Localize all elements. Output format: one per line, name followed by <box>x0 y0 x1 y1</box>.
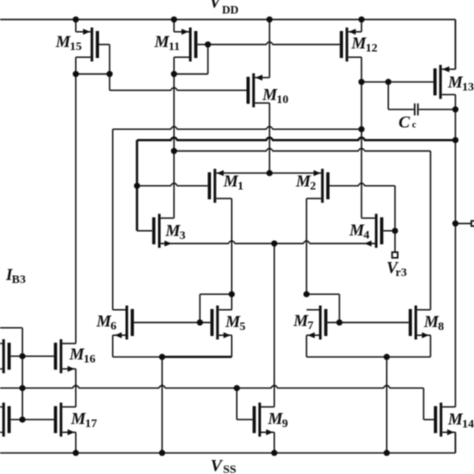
VDD rail <box>0 20 455 70</box>
svg-text:V: V <box>211 456 224 474</box>
M11 drain wire <box>174 57 189 74</box>
svg-text:17: 17 <box>85 416 97 430</box>
svg-text:4: 4 <box>364 228 370 242</box>
M1 gate wire <box>134 183 208 189</box>
M16 source wire <box>62 366 76 407</box>
M6 gate rail <box>134 322 211 324</box>
svg-text:16: 16 <box>84 352 96 366</box>
junction line3-M11drain <box>171 148 177 154</box>
M3 gate wire <box>137 230 152 232</box>
M2 label <box>295 172 316 193</box>
wire tail rail <box>161 241 375 244</box>
transistor M14 <box>436 403 442 437</box>
M9 label <box>267 409 288 430</box>
M10 gate rail <box>110 74 247 90</box>
M2 drain wire <box>307 199 322 295</box>
wire line2 thick <box>137 138 455 231</box>
wire IB3 <box>0 328 22 356</box>
transistor M9 <box>254 403 260 437</box>
junction Cc-output <box>452 106 458 112</box>
transistor M15 <box>92 28 98 62</box>
M2 source wire <box>270 170 322 176</box>
junction VSS-mirror-right <box>384 450 390 456</box>
M3 label <box>165 221 186 242</box>
M5 label <box>225 312 246 333</box>
junction M7-M8 gate <box>336 319 342 325</box>
Cc label <box>399 113 417 132</box>
M14 drain wire <box>442 406 455 408</box>
svg-text:SS: SS <box>223 462 237 474</box>
Vr3 label <box>387 258 407 279</box>
M12 source wire <box>348 20 361 35</box>
junction source rail right <box>384 354 390 453</box>
transistor M5 <box>212 306 218 340</box>
svg-text:2: 2 <box>310 179 316 193</box>
junction R2-left <box>19 385 25 391</box>
junction VSS-M9 <box>271 450 277 456</box>
svg-text:6: 6 <box>111 319 117 333</box>
M10 source wire <box>255 20 270 81</box>
svg-text:3: 3 <box>180 228 186 242</box>
svg-text:7: 7 <box>308 318 314 332</box>
M16 drain wire <box>62 74 76 344</box>
M9 drain wire <box>261 406 274 408</box>
M4 label <box>349 221 370 242</box>
M8 drain wire <box>417 309 430 311</box>
junction line2-M13drain <box>452 137 458 143</box>
IB3 label <box>5 265 26 286</box>
M17 source wire <box>62 429 76 453</box>
M4 source arrow <box>365 241 372 247</box>
junction VDD-M10 <box>266 16 272 22</box>
wire line3 <box>174 148 431 309</box>
M1 label <box>223 172 244 193</box>
junction M4 gate <box>392 228 398 234</box>
M11 gate wire <box>174 45 208 75</box>
transistor M7 <box>320 306 326 340</box>
node M15 drain-gate tie <box>73 71 113 77</box>
M5 drain wire <box>219 294 232 310</box>
M14 gate wire <box>424 419 434 421</box>
svg-text:c: c <box>412 121 416 131</box>
VSS rail <box>0 432 455 453</box>
M9 gate wire <box>237 388 253 420</box>
M13 source wire <box>442 20 456 73</box>
transistor M17 <box>56 403 62 437</box>
svg-text:r3: r3 <box>396 265 407 279</box>
svg-text:8: 8 <box>438 319 444 333</box>
transistor M1 <box>209 169 215 203</box>
transistor M8 <box>410 306 416 340</box>
M3 drain wire <box>161 217 174 219</box>
wire bias rail <box>0 386 424 420</box>
junction R2-M9gate <box>234 385 240 391</box>
transistor QB partial <box>4 403 10 437</box>
QA gate wire <box>11 355 54 357</box>
junction VSS-M17 <box>73 450 79 456</box>
svg-text:B3: B3 <box>12 272 26 286</box>
M5 source wire <box>219 332 232 357</box>
M15 label <box>55 32 82 53</box>
M2 gate wire <box>330 183 396 252</box>
terminal output <box>455 221 474 226</box>
M6 source wire <box>113 332 126 357</box>
M17 label <box>70 409 97 430</box>
svg-text:12: 12 <box>366 41 378 55</box>
M7 tie wire <box>307 294 340 322</box>
M11 source wire <box>174 20 189 35</box>
M14 label <box>447 410 474 431</box>
M10 drain wire <box>255 103 270 173</box>
svg-text:5: 5 <box>240 319 246 333</box>
QA leads <box>0 344 2 369</box>
transistor M11 <box>190 28 196 62</box>
VDD label <box>210 0 239 17</box>
svg-text:V: V <box>210 0 223 12</box>
M4 gate wire <box>383 230 395 232</box>
junction M11 drain <box>171 71 177 77</box>
M14 source wire <box>442 429 455 453</box>
transistor M2 <box>322 169 328 203</box>
transistor M12 <box>341 28 347 62</box>
svg-text:C: C <box>399 113 411 132</box>
M17 drain wire <box>62 406 76 408</box>
M15 drain wire <box>76 57 91 74</box>
junction VSS-mirror-left <box>159 450 165 456</box>
M15 source wire <box>76 20 91 35</box>
svg-text:13: 13 <box>462 80 474 94</box>
wire M5-M6 source rail <box>113 356 232 358</box>
junction tail <box>271 240 277 246</box>
junction VDD-M15 <box>73 16 79 22</box>
M7 label <box>293 311 314 332</box>
transistor M4 <box>376 214 382 248</box>
M13 label <box>447 73 474 94</box>
wire M7-M8 source rail <box>307 356 431 358</box>
M7 gate rail <box>327 322 408 324</box>
M12 label <box>351 34 378 55</box>
wire M11 gate to M12 gate <box>208 42 340 45</box>
M16 label <box>69 345 96 366</box>
junction output <box>452 220 458 226</box>
wire line1 <box>113 127 362 310</box>
M15 gate wire <box>99 45 110 75</box>
M6 label <box>96 312 117 333</box>
VSS label <box>211 456 237 474</box>
M8 label <box>423 312 444 333</box>
M8 source wire <box>417 332 430 357</box>
transistor M16 <box>56 339 62 373</box>
wire bias chain left <box>21 356 23 419</box>
wire tail down <box>273 244 275 407</box>
wire M11 drain down <box>173 74 175 218</box>
svg-text:9: 9 <box>282 416 288 430</box>
terminal Vr3 <box>392 252 398 258</box>
transistor M6 <box>127 306 133 340</box>
M5 tie wire <box>200 294 232 322</box>
svg-text:1: 1 <box>238 179 244 193</box>
capacitor Cc <box>388 82 455 116</box>
M4 drain wire <box>362 82 375 218</box>
M12 drain wire <box>348 57 361 82</box>
junction VDD-M12 <box>358 16 364 22</box>
junction M1-M2 source <box>266 170 272 176</box>
M7 drain wire <box>307 309 320 311</box>
M1 source wire <box>216 170 269 176</box>
M3 source arrow <box>165 241 172 247</box>
svg-text:15: 15 <box>70 39 82 53</box>
junction VDD-M11 <box>171 16 177 22</box>
M6 drain wire <box>113 309 126 311</box>
junction M7 tie <box>303 291 309 297</box>
M11 label <box>154 32 180 53</box>
M1 drain wire <box>216 199 232 295</box>
svg-text:11: 11 <box>169 39 180 53</box>
M13 gate wire <box>358 79 433 85</box>
junction QA gate <box>19 353 25 359</box>
M13 drain wire <box>442 95 456 407</box>
M10 label <box>262 85 289 106</box>
svg-text:14: 14 <box>462 417 474 431</box>
junction M5-M6 gate <box>197 319 203 325</box>
junction source rail left <box>159 354 165 453</box>
svg-text:DD: DD <box>222 5 239 17</box>
junction M11 gate <box>205 41 211 47</box>
junction M5 tie <box>229 291 235 297</box>
transistor M13 <box>435 65 441 99</box>
transistor QA partial <box>4 339 10 373</box>
QB leads <box>0 407 2 432</box>
svg-text:10: 10 <box>277 92 289 106</box>
M7 source wire <box>307 332 320 357</box>
junction line1-M12drain <box>358 126 364 132</box>
transistor M3 <box>154 214 160 248</box>
M9 source wire <box>261 429 274 453</box>
junction QB gate <box>19 417 25 423</box>
QB gate wire <box>11 419 54 421</box>
transistor M10 <box>248 73 254 107</box>
